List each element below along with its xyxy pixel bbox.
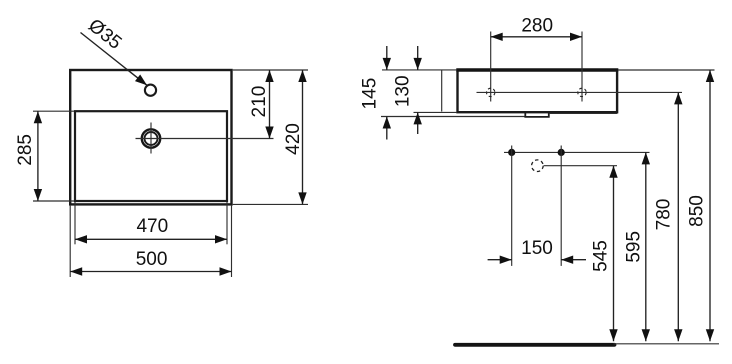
svg-text:285: 285 <box>15 134 36 166</box>
supply point left <box>508 149 515 156</box>
extension line bottom right (420) <box>233 203 308 205</box>
svg-text:545: 545 <box>590 240 611 272</box>
dimension 420 line <box>302 70 304 204</box>
svg-text:470: 470 <box>136 216 168 237</box>
supply point right <box>558 149 565 156</box>
label 420 <box>283 123 304 155</box>
dimension 150 <box>488 259 512 261</box>
extension line 145 level / under-basin line <box>381 116 525 118</box>
extension line rim level left <box>382 69 456 71</box>
svg-text:850: 850 <box>687 195 708 227</box>
svg-text:280: 280 <box>521 15 553 36</box>
fixing hole left (dashed) <box>487 88 495 96</box>
under-basin line right of boss <box>549 112 618 114</box>
basin outer outline (top view) <box>70 70 231 204</box>
svg-text:500: 500 <box>136 249 168 270</box>
dimension 500 line <box>70 271 231 273</box>
svg-text:595: 595 <box>623 231 644 263</box>
label 285 <box>15 134 36 166</box>
drain inner circle <box>145 132 158 145</box>
label 545 <box>590 240 611 272</box>
dimension 780 <box>677 92 679 341</box>
svg-text:420: 420 <box>283 123 304 155</box>
extension lines (470) <box>74 202 76 244</box>
dimension 130 <box>417 46 419 70</box>
extension lines (500) <box>69 206 71 277</box>
svg-text:780: 780 <box>654 199 675 231</box>
drain horizontal centerline / extension for 210 <box>136 138 274 140</box>
dimension 285 line <box>37 111 39 201</box>
basin profile outline (side view) <box>458 70 618 112</box>
extension line basin bottom (130) <box>414 111 458 113</box>
drain boss under basin <box>525 113 549 117</box>
extension line top (285) <box>33 110 74 112</box>
label 595 <box>623 231 644 263</box>
extension line rim level right (850) <box>618 69 714 71</box>
dimension 145 <box>386 46 388 70</box>
extension line waste level (545) <box>544 165 617 167</box>
label 850 <box>687 195 708 227</box>
svg-text:145: 145 <box>360 78 381 110</box>
waste outlet (dashed circle) <box>532 160 544 172</box>
svg-text:150: 150 <box>521 238 553 259</box>
extension line bottom (285) <box>33 200 74 202</box>
fixing hole right (dashed) <box>578 88 586 96</box>
extension vertical through right supply point (150) <box>560 146 562 266</box>
label 145 <box>360 78 381 110</box>
dimension 210 line <box>269 70 271 139</box>
svg-text:130: 130 <box>392 75 413 107</box>
drain outer circle <box>142 129 160 147</box>
basin rim top edge (thick) <box>456 68 618 71</box>
dimension 470 line <box>75 238 227 240</box>
floor line (thin continuation) <box>614 343 720 345</box>
dimension 280 line <box>491 36 582 38</box>
dimension 595 <box>645 152 647 341</box>
floor line (thick) <box>455 343 615 347</box>
label 210 <box>249 86 270 118</box>
fixing holes centerline / extension for 780 <box>477 91 683 93</box>
extension line top right (210/420) <box>233 69 308 71</box>
dimension 850 <box>709 70 711 341</box>
dimension 545 <box>613 166 615 342</box>
extension lines (280 / fixing holes) <box>490 32 492 102</box>
svg-text:210: 210 <box>249 86 270 118</box>
faucet hole <box>145 85 156 96</box>
supply line / extension for 595 <box>504 151 650 153</box>
drain vertical centerline <box>150 123 152 154</box>
basin inner bowl outline <box>75 111 227 201</box>
label 130 <box>392 75 413 107</box>
extension vertical through left supply point (150) <box>511 146 513 266</box>
label 780 <box>654 199 675 231</box>
leader line for Ø35 <box>81 33 148 86</box>
label Ø35 <box>84 15 125 54</box>
rear wall gap line <box>441 70 443 112</box>
